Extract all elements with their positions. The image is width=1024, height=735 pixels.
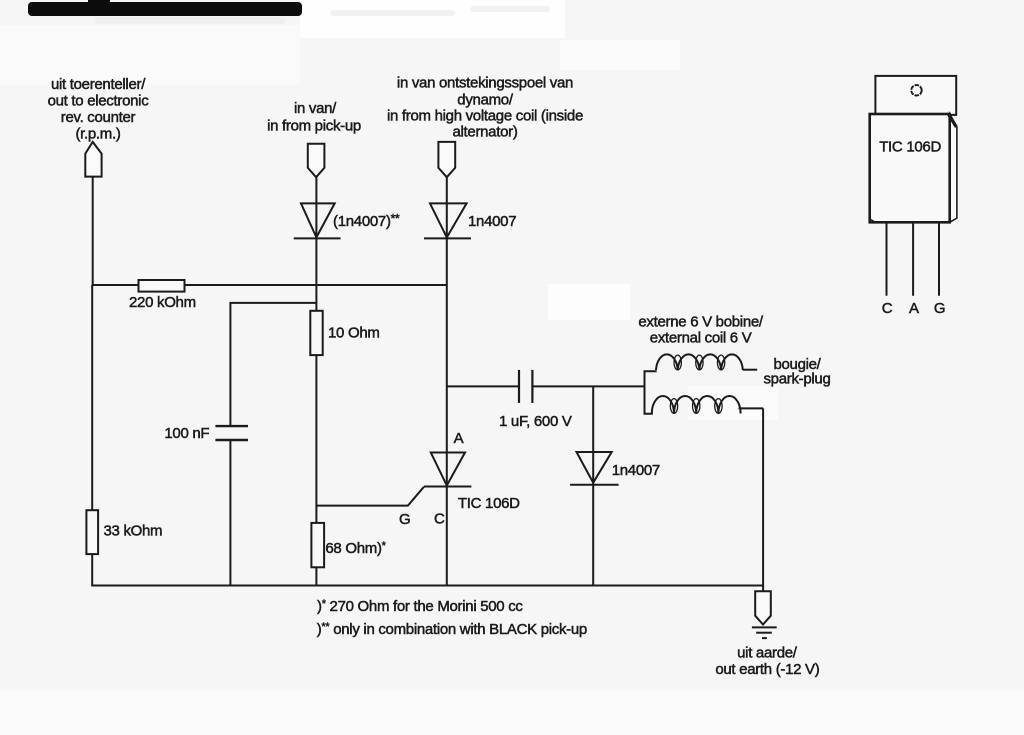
svg-text:A: A xyxy=(454,430,464,447)
svg-text:TIC 106D: TIC 106D xyxy=(458,495,520,512)
pin C leg xyxy=(886,223,888,296)
svg-text:dynamo/: dynamo/ xyxy=(457,92,514,109)
wire: ground bus xyxy=(92,585,763,587)
wire: left node row segment xyxy=(92,284,140,286)
svg-text:uit aarde/: uit aarde/ xyxy=(737,645,798,662)
svg-text:C: C xyxy=(882,300,893,317)
svg-text:external coil 6 V: external coil 6 V xyxy=(650,330,752,347)
terminal arrow: HV coil input (points down) xyxy=(438,142,455,177)
svg-text:in from pick-up: in from pick-up xyxy=(267,118,361,135)
pin G leg xyxy=(938,223,940,296)
label: 33 kOhm xyxy=(104,523,163,540)
svg-text:spark-plug: spark-plug xyxy=(763,371,830,388)
svg-text:alternator): alternator) xyxy=(452,124,517,141)
terminal arrow: pick-up input (points down) xyxy=(308,144,325,177)
label: 1n4007 (D3) xyxy=(612,462,660,479)
wire: HV arrow to diode D2 xyxy=(446,177,448,238)
svg-text:in from high voltage coil (ins: in from high voltage coil (inside xyxy=(387,108,583,125)
wire: R4 bottom to ground bus xyxy=(315,567,317,586)
svg-text:10 Ohm: 10 Ohm xyxy=(328,325,380,342)
terminal arrow: earth output (points down) xyxy=(755,591,771,624)
wire: D1 cathode down through node row to R2 xyxy=(315,238,317,311)
svg-text:)* 270 Ohm for the Morini 500: )* 270 Ohm for the Morini 500 cc xyxy=(317,598,523,615)
wire: SCR cathode down to ground bus xyxy=(446,487,448,587)
label: G (gate) xyxy=(399,511,410,528)
svg-text:in van/: in van/ xyxy=(294,100,337,117)
resistor R2 10 Ohm xyxy=(310,311,322,355)
label: TIC 106D (package) xyxy=(879,139,941,156)
svg-text:rev. counter: rev. counter xyxy=(61,109,136,126)
wire: R2 bottom down to gate node xyxy=(315,355,317,524)
svg-text:in van ontstekingsspoel van: in van ontstekingsspoel van xyxy=(397,75,573,92)
thyristor U1 TIC 106D xyxy=(424,453,471,487)
svg-text:68 Ohm)*: 68 Ohm)* xyxy=(325,540,386,557)
wire: coil node down to diode D3 xyxy=(592,386,594,484)
resistor R4 68 Ohm xyxy=(311,523,324,567)
pin A leg xyxy=(912,223,914,296)
svg-text:externe 6 V bobine/: externe 6 V bobine/ xyxy=(638,314,764,331)
package drawing: mounting hole xyxy=(911,85,921,95)
label: A (anode) xyxy=(454,430,464,447)
wire: left rail down to R3 xyxy=(91,285,93,511)
note: )* 270 Ohm for the Morini 500 cc xyxy=(317,598,523,615)
label: uit aarde / out earth (-12 V) xyxy=(715,645,819,679)
ground symbol xyxy=(752,627,777,638)
svg-text:100 nF: 100 nF xyxy=(164,425,209,442)
svg-text:1 uF, 600 V: 1 uF, 600 V xyxy=(499,413,572,430)
wire: coil secondary down to ground bus xyxy=(762,408,764,591)
svg-text:220 kOhm: 220 kOhm xyxy=(129,294,196,311)
capacitor C1 100 nF xyxy=(215,426,248,440)
label: 68 Ohm)* xyxy=(325,540,386,557)
inductor L2 coil secondary (bottom) xyxy=(652,396,763,414)
svg-text:out earth (-12 V): out earth (-12 V) xyxy=(715,661,819,678)
wire: rev-counter arrow down to node row xyxy=(92,177,94,286)
label: 10 Ohm xyxy=(328,325,380,342)
diode D2 1n4007 xyxy=(424,203,471,238)
resistor R1 220 kOhm xyxy=(139,280,185,292)
svg-text:C: C xyxy=(434,511,445,528)
svg-text:)** only in combination with B: )** only in combination with BLACK pick-… xyxy=(317,621,587,638)
svg-text:out to electronic: out to electronic xyxy=(48,93,150,110)
wire: pick-up arrow to diode D1 xyxy=(315,177,317,238)
diode D3 1n4007 xyxy=(570,452,619,485)
label: A pin xyxy=(909,300,919,317)
label: 100 nF xyxy=(164,425,209,442)
redacted heading bar xyxy=(28,0,302,16)
svg-text:A: A xyxy=(909,300,919,317)
label: 1 uF, 600 V xyxy=(499,413,572,430)
diode D1 (1n4007)** xyxy=(294,203,341,238)
svg-text:G: G xyxy=(934,300,945,317)
label: TIC 106D (schematic) xyxy=(458,495,520,512)
svg-text:(r.p.m.): (r.p.m.) xyxy=(75,126,120,143)
label: 220 kOhm xyxy=(129,294,196,311)
wire: branch to 100nF capacitor xyxy=(230,303,316,427)
label: in van / in from pick-up xyxy=(267,100,361,135)
svg-text:G: G xyxy=(399,511,410,528)
resistor R3 33 kOhm xyxy=(86,510,98,554)
capacitor C2 1 uF 600 V xyxy=(519,370,532,403)
terminal arrow: rev-counter output (points up) xyxy=(85,142,101,177)
wire: node row from R1 to HV line xyxy=(185,284,447,286)
wire: C2 to coil node xyxy=(532,385,644,387)
package drawing: body xyxy=(870,114,957,223)
svg-text:33 kOhm: 33 kOhm xyxy=(104,523,163,540)
wire: coil left vertical link xyxy=(645,371,657,414)
label: uit toerenteller / out to electronic rev. counter xyxy=(48,76,150,143)
wire: D3 cathode to ground bus xyxy=(592,485,594,587)
wire: D2 cathode down to SCR anode xyxy=(446,238,448,486)
label: (1n4007)** xyxy=(333,212,400,231)
label: bougie / spark-plug xyxy=(763,356,830,388)
gate wire xyxy=(316,487,424,506)
label: C pin xyxy=(882,300,893,317)
svg-text:1n4007: 1n4007 xyxy=(612,462,660,479)
inductor L1 coil primary (top) xyxy=(656,354,757,370)
package drawing TIC 106D: mounting tab xyxy=(875,76,956,115)
svg-text:TIC 106D: TIC 106D xyxy=(879,139,941,156)
label: externe 6 V bobine / external coil 6 V xyxy=(638,314,764,347)
note: )** only in combination with BLACK pick-up xyxy=(317,621,587,638)
label: 1n4007 (D2) xyxy=(468,213,516,230)
wire: R3 bottom to ground bus xyxy=(91,554,93,586)
svg-text:1n4007: 1n4007 xyxy=(468,213,516,230)
label: C (cathode) xyxy=(434,511,445,528)
label: G pin xyxy=(934,300,945,317)
wire: anode node to C2 xyxy=(447,385,519,387)
wire: C1 bottom to ground bus xyxy=(229,440,231,586)
svg-text:uit toerenteller/: uit toerenteller/ xyxy=(51,76,146,93)
svg-text:(1n4007)**: (1n4007)** xyxy=(333,212,400,231)
label: in van ontstekingsspoel van dynamo xyxy=(387,75,583,141)
